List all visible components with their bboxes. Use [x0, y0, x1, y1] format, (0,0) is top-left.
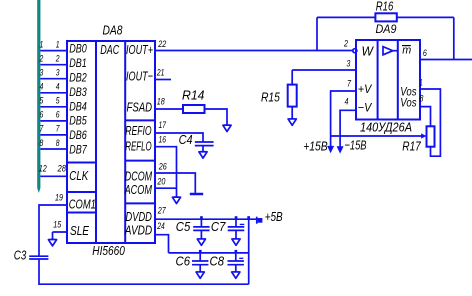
svg-text:26: 26: [158, 162, 167, 172]
svg-text:HI5660: HI5660: [92, 243, 125, 258]
svg-text:R16: R16: [376, 0, 394, 13]
svg-text:R14: R14: [182, 88, 205, 103]
svg-text:R17: R17: [402, 138, 421, 153]
svg-text:8: 8: [419, 94, 423, 104]
svg-text:1: 1: [56, 39, 60, 49]
svg-text:IOUT−: IOUT−: [126, 69, 153, 84]
svg-text:4: 4: [40, 82, 44, 92]
svg-text:5: 5: [40, 96, 45, 106]
svg-text:3: 3: [56, 68, 60, 78]
svg-text:DAC: DAC: [100, 42, 119, 57]
svg-text:DB0: DB0: [69, 42, 87, 56]
svg-text:DB6: DB6: [69, 128, 87, 142]
svg-text:6: 6: [40, 110, 44, 120]
svg-text:8: 8: [56, 138, 60, 148]
svg-text:+V: +V: [358, 82, 372, 96]
svg-text:C8: C8: [210, 254, 225, 269]
svg-text:140УД26А: 140УД26А: [360, 120, 412, 135]
svg-text:ACOM: ACOM: [124, 182, 152, 197]
svg-text:18: 18: [157, 96, 165, 106]
svg-text:W: W: [362, 44, 375, 59]
svg-text:C4: C4: [179, 132, 193, 147]
svg-text:19: 19: [55, 192, 63, 202]
svg-text:REFLO: REFLO: [125, 138, 151, 153]
svg-text:C6: C6: [176, 254, 191, 269]
svg-text:FSAD: FSAD: [127, 100, 153, 115]
svg-text:IOUT+: IOUT+: [126, 42, 153, 57]
svg-text:DB7: DB7: [69, 143, 87, 157]
svg-text:DB3: DB3: [69, 85, 87, 99]
svg-text:Vos: Vos: [400, 96, 416, 110]
svg-text:6: 6: [423, 48, 427, 58]
svg-text:C3: C3: [14, 248, 27, 263]
svg-text:DB2: DB2: [69, 70, 87, 84]
svg-text:3: 3: [40, 68, 44, 78]
svg-text:DB1: DB1: [69, 56, 87, 70]
svg-text:4: 4: [345, 97, 349, 107]
svg-text:2: 2: [39, 54, 44, 64]
svg-text:R15: R15: [261, 90, 280, 105]
svg-text:2: 2: [343, 38, 348, 48]
svg-text:21: 21: [156, 67, 164, 77]
svg-text:24: 24: [156, 221, 164, 231]
svg-text:DB5: DB5: [69, 114, 87, 128]
svg-text:7: 7: [56, 124, 61, 134]
svg-text:7: 7: [40, 124, 45, 134]
svg-text:28: 28: [57, 163, 66, 173]
svg-text:1: 1: [420, 78, 423, 88]
svg-text:16: 16: [159, 135, 167, 145]
svg-text:17: 17: [159, 120, 167, 130]
svg-text:CLK: CLK: [69, 168, 89, 183]
svg-text:2: 2: [55, 54, 60, 64]
svg-text:−V: −V: [358, 100, 372, 114]
svg-text:m: m: [402, 45, 411, 57]
svg-text:DA8: DA8: [103, 22, 124, 37]
svg-text:AVDD: AVDD: [124, 223, 152, 238]
svg-text:DA9: DA9: [376, 22, 397, 36]
svg-text:4: 4: [56, 82, 60, 92]
svg-text:SLE: SLE: [70, 223, 89, 238]
svg-text:DB4: DB4: [69, 99, 87, 113]
svg-text:6: 6: [56, 110, 60, 120]
svg-text:20: 20: [157, 177, 166, 187]
svg-text:3: 3: [346, 58, 350, 68]
svg-text:7: 7: [347, 78, 352, 88]
svg-text:1: 1: [40, 39, 44, 49]
svg-text:COM1: COM1: [69, 197, 96, 212]
svg-text:22: 22: [158, 39, 167, 49]
svg-text:27: 27: [157, 206, 167, 216]
svg-text:REFIO: REFIO: [125, 123, 151, 138]
svg-text:C5: C5: [176, 219, 191, 234]
svg-text:8: 8: [40, 138, 44, 148]
svg-text:−15B: −15B: [345, 138, 367, 153]
svg-text:12: 12: [39, 163, 47, 173]
svg-text:+15B: +15B: [303, 139, 328, 154]
svg-text:5: 5: [56, 96, 61, 106]
svg-text:+5B: +5B: [265, 209, 283, 224]
svg-text:C7: C7: [211, 219, 226, 234]
svg-text:15: 15: [53, 219, 62, 229]
